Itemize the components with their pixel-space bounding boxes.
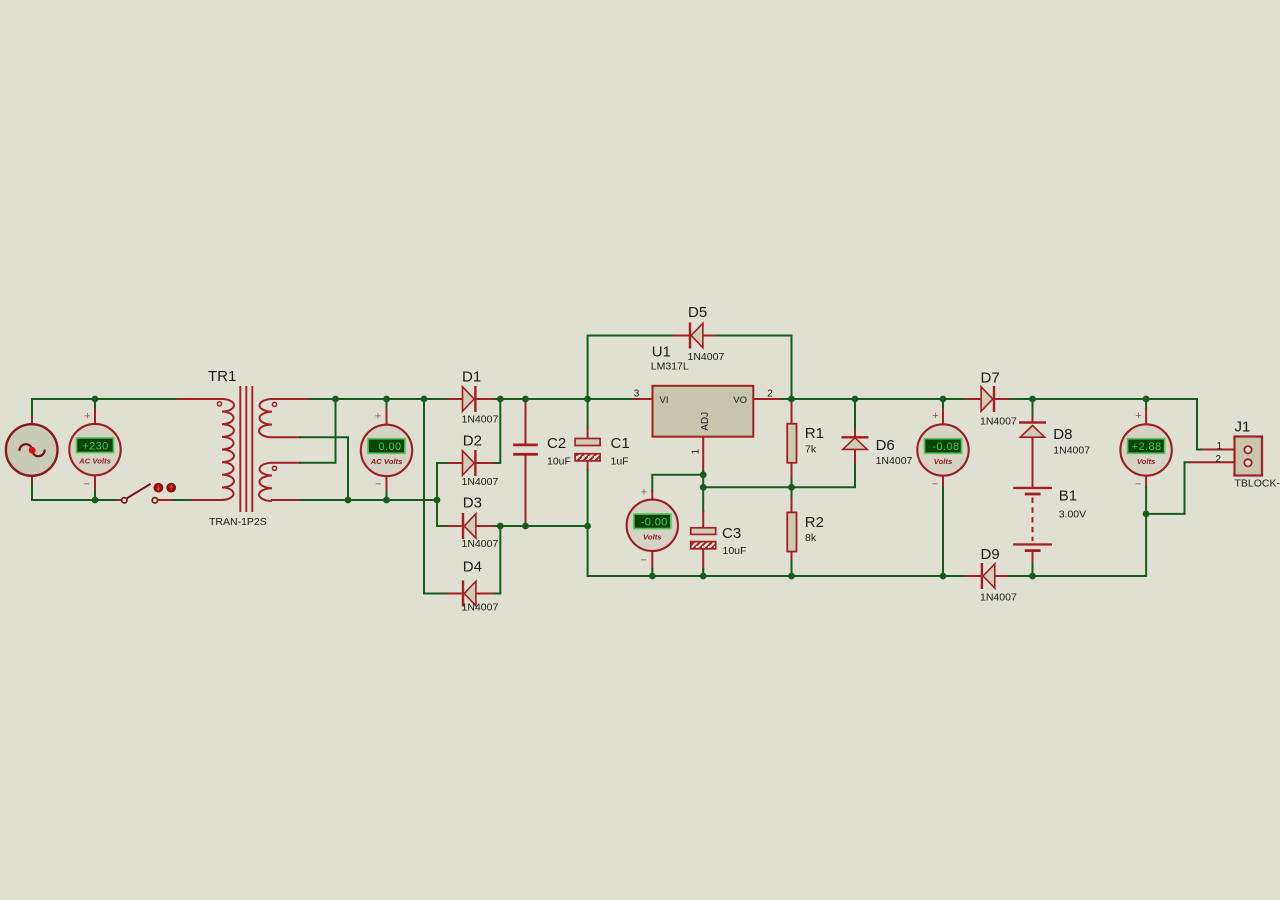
svg-text:1N4007: 1N4007: [876, 455, 913, 467]
wire: R2 pins: [791, 487, 793, 499]
svg-text:Volts: Volts: [1137, 457, 1156, 466]
wire: transformer secondary top lead red: [272, 398, 310, 400]
wire: D1 red leads: [448, 398, 495, 400]
svg-text:D4: D4: [463, 559, 482, 576]
wire: D4 red leads: [448, 593, 495, 595]
wire: secondary bottom rail: [300, 499, 437, 501]
wire: voltmeter5 plus stub: [1145, 399, 1147, 409]
wire: voltmeter1 minus stub: [94, 475, 96, 491]
junction mid rail at C2: [522, 523, 529, 530]
wire: voltmeter4 minus stub to ground rail: [942, 476, 944, 488]
wire: C2 red pins: [525, 401, 527, 524]
junction secondary bottom rail at voltmeter2: [383, 497, 390, 504]
junction voltmeter5 minus node: [1143, 511, 1150, 518]
svg-text:7k: 7k: [805, 444, 817, 456]
svg-text:1N4007: 1N4007: [688, 351, 725, 363]
wire: secondary top rail to D1: [310, 398, 448, 400]
diode D6: [842, 436, 869, 449]
svg-text:1N4007: 1N4007: [980, 592, 1017, 604]
junction secondary bottom rail x437: [434, 497, 441, 504]
wire: ground bottom rail: [588, 526, 966, 576]
diode D3: [462, 513, 476, 539]
capacitor C2: [513, 444, 538, 456]
wire: D2 cathode up to top rail: [495, 399, 501, 463]
voltmeter +2.88 Volts: [1120, 410, 1171, 491]
wire: voltmeter4 plus stub: [942, 399, 944, 409]
junction VO rail at R1/D5: [788, 396, 795, 403]
battery B1 3.00V: [1013, 487, 1052, 552]
transformer secondary winding 1: [259, 399, 272, 437]
wire: C3 bottom to ground rail: [702, 569, 704, 576]
capacitor C1 (electrolytic): [575, 439, 600, 461]
wire: voltmeter2 plus stub: [386, 399, 388, 409]
svg-text:TBLOCK-I2: TBLOCK-I2: [1235, 478, 1280, 490]
junction top rail x424: [421, 396, 428, 403]
wire: J1 pin2 loop: [1146, 462, 1190, 514]
wire: red pin to switch left contact: [119, 499, 122, 501]
transformer polarity dot secondary 1: [272, 402, 276, 406]
wire: ADJ to voltmeter3 plus: [652, 475, 703, 491]
wire: vertical x424 top rail to D4: [424, 399, 448, 594]
svg-text:-0.00: -0.00: [641, 516, 668, 528]
svg-text:D1: D1: [462, 368, 481, 385]
svg-text:D3: D3: [463, 495, 482, 512]
wire: voltmeter2 minus stub: [386, 476, 388, 492]
wire: mid rail D3 to C1 junction: [495, 525, 588, 527]
svg-text:+: +: [84, 410, 90, 422]
junction ground rail at voltmeter3: [649, 573, 656, 580]
wire: voltmeter5 minus stub: [1145, 476, 1147, 488]
transformer TR1 TRAN-1P2S: [217, 386, 276, 512]
svg-text:AC Volts: AC Volts: [370, 457, 403, 466]
svg-text:2: 2: [767, 389, 773, 400]
svg-text:+: +: [641, 487, 647, 499]
wire: D2 red leads: [448, 462, 495, 464]
wire: R1 pins: [791, 401, 793, 479]
voltmeter -0.00 Volts: [627, 487, 678, 567]
svg-text:VI: VI: [660, 395, 669, 406]
wire: bottom rail D9 to voltmeter5 corner: [1010, 514, 1146, 576]
svg-text:D7: D7: [981, 369, 1000, 386]
transformer polarity dot primary: [217, 402, 221, 406]
wire: switch right contact to transformer primary bottom: [158, 499, 173, 501]
junction ground rail at voltmeter4: [940, 573, 947, 580]
junction top rail at voltmeter2: [383, 396, 390, 403]
resistor R2: [787, 512, 796, 551]
wire: D7 red leads: [966, 398, 1010, 400]
svg-text:D5: D5: [688, 304, 707, 321]
svg-text:1N4007: 1N4007: [1053, 444, 1090, 456]
terminal block J1: [1235, 437, 1263, 476]
diode D2: [463, 450, 477, 476]
wire: C3 red pins: [702, 511, 704, 569]
wire: ADJ junction to R1/R2 node and D6: [703, 464, 855, 487]
svg-text:−: −: [375, 478, 381, 490]
svg-text:R1: R1: [805, 425, 824, 442]
junction top rail at C2: [522, 396, 529, 403]
wire: D5 bypass loop right side: [716, 336, 792, 400]
wire: D5 red leads: [675, 335, 717, 337]
svg-text:1N4007: 1N4007: [980, 416, 1017, 428]
wire: transformer primary top red lead: [178, 398, 222, 400]
svg-text:0.00: 0.00: [378, 441, 401, 453]
junction mid rail at D3: [497, 523, 504, 530]
wire: D6 cathode to VO rail: [854, 399, 856, 428]
svg-text:8k: 8k: [805, 532, 817, 544]
wire: battery bottom pin: [1032, 552, 1034, 563]
svg-text:D9: D9: [981, 546, 1000, 563]
wire: VO rail to D7: [781, 398, 966, 400]
svg-text:−: −: [932, 479, 938, 491]
wire: D6 anode red pin: [854, 450, 856, 464]
wire: U1 VI red pin: [634, 398, 653, 400]
wire: D7 cathode rail to J1 corner: [1010, 399, 1203, 450]
svg-text:TR1: TR1: [208, 368, 236, 385]
diode D8: [1019, 421, 1046, 437]
junction top rail at C1/D5: [584, 396, 591, 403]
wire: secondary winding2 bottom lead red: [272, 499, 300, 501]
svg-text:+230: +230: [82, 440, 108, 452]
wire: vertical x437 D2 anode to D3 cathode: [436, 463, 438, 526]
wire: D6 cathode red pin: [854, 428, 856, 436]
wire: bottom-left rail AC source to switch: [32, 483, 119, 500]
wire: to D3 cathode: [437, 525, 448, 527]
voltmeter -0.08 Volts: [917, 410, 968, 491]
svg-text:ADJ: ADJ: [700, 412, 711, 431]
junction top rail x335: [332, 396, 339, 403]
svg-text:Volts: Volts: [934, 457, 953, 466]
svg-text:C2: C2: [547, 435, 566, 452]
junction VO rail at D6: [852, 396, 859, 403]
transformer secondary winding 2: [259, 463, 272, 501]
junction top rail at D1 cathode: [497, 396, 504, 403]
svg-text:VO: VO: [733, 395, 747, 406]
regulator U1 LM317L: [653, 386, 754, 437]
svg-text:C3: C3: [722, 525, 741, 542]
wire: D3 red leads: [448, 525, 495, 527]
junction ADJ lower: [700, 484, 707, 491]
wire: secondary winding1 bottom lead red: [272, 436, 300, 438]
svg-text:1N4007: 1N4007: [462, 538, 499, 550]
resistor R1: [787, 424, 796, 463]
svg-text:R2: R2: [805, 514, 824, 531]
svg-text:1: 1: [691, 449, 702, 455]
wire: D8 top stub: [1032, 399, 1034, 416]
svg-text:LM317L: LM317L: [651, 361, 689, 373]
diode D9: [981, 563, 995, 589]
svg-text:1N4007: 1N4007: [462, 602, 499, 614]
svg-text:+: +: [375, 410, 381, 422]
wire: U1 ADJ red pin: [702, 437, 704, 471]
svg-text:−: −: [1135, 479, 1141, 491]
capacitor C3 (electrolytic): [691, 528, 716, 549]
svg-text:+2.88: +2.88: [1132, 441, 1162, 453]
junction mid rail at C1: [584, 523, 591, 530]
junction ground rail at B1: [1029, 573, 1036, 580]
wire: top-left loop AC source top to transformer primary: [32, 399, 178, 417]
svg-text:TRAN-1P2S: TRAN-1P2S: [209, 516, 267, 528]
svg-text:10uF: 10uF: [547, 456, 571, 468]
svg-text:−: −: [83, 478, 89, 490]
junction ground rail at C3: [700, 573, 707, 580]
wire: winding2 top to x335.5 up to top rail: [300, 399, 336, 463]
diode D5: [689, 323, 703, 349]
wire: to D2 anode: [437, 462, 448, 464]
transformer core: [240, 386, 252, 512]
svg-text:B1: B1: [1059, 488, 1077, 505]
svg-text:+: +: [1135, 410, 1141, 422]
junction secondary bottom rail x348: [345, 497, 352, 504]
wire: D5 bypass loop left side: [588, 336, 675, 400]
wire: voltmeter1 plus stub: [94, 399, 96, 409]
svg-text:C1: C1: [611, 435, 630, 452]
wire: voltmeter3 minus stub: [651, 551, 653, 569]
wire: U1 VO red pin: [753, 398, 781, 400]
wire: C1 pins: [587, 399, 589, 429]
AC voltage source: [6, 424, 58, 476]
svg-text:AC Volts: AC Volts: [78, 456, 111, 465]
wire: red pin stub AC source top: [31, 417, 33, 425]
junction top rail at voltmeter1: [92, 396, 99, 403]
svg-text:D6: D6: [876, 437, 895, 454]
svg-text:1N4007: 1N4007: [462, 414, 499, 426]
svg-text:2: 2: [1216, 454, 1222, 465]
wire: J1 pin1 red lead: [1203, 449, 1244, 451]
svg-text:Volts: Volts: [643, 532, 662, 541]
svg-text:1uF: 1uF: [611, 456, 629, 468]
junction rail at voltmeter5: [1143, 396, 1150, 403]
diode D7: [981, 386, 995, 412]
wire: D9 red leads: [966, 575, 1010, 577]
voltmeter 0.00 AC Volts: [361, 410, 412, 490]
svg-text:−: −: [640, 555, 646, 567]
svg-text:1: 1: [1217, 441, 1223, 452]
switch SW1: [122, 483, 177, 503]
svg-text:1N4007: 1N4007: [462, 476, 499, 488]
svg-text:D8: D8: [1053, 426, 1072, 443]
junction VO rail at voltmeter4: [940, 396, 947, 403]
svg-text:10uF: 10uF: [723, 545, 747, 557]
voltmeter +230 AC Volts: [69, 410, 120, 490]
junction ADJ upper: [700, 471, 707, 478]
diode D4: [462, 581, 476, 607]
diode D1: [463, 386, 477, 412]
wire: red pin stub AC source bottom: [31, 476, 33, 484]
wire: top rail D1 to U1 VI: [495, 398, 634, 400]
wire: D4 anode up to mid rail: [495, 526, 501, 594]
svg-text:D2: D2: [463, 433, 482, 450]
svg-text:J1: J1: [1235, 419, 1251, 436]
svg-text:-0.08: -0.08: [932, 441, 959, 453]
svg-text:3: 3: [634, 389, 640, 400]
transformer polarity dot secondary 2: [272, 466, 276, 470]
junction R1/R2 node: [788, 484, 795, 491]
wire: ADJ net vertical: [702, 471, 704, 512]
junction rail at D8: [1029, 396, 1036, 403]
svg-text:U1: U1: [652, 344, 671, 361]
junction left bottom rail at voltmeter1: [92, 497, 99, 504]
svg-text:3.00V: 3.00V: [1059, 509, 1086, 521]
wire: D8 anode to battery B1: [1032, 438, 1034, 487]
junction ground rail at R2: [788, 573, 795, 580]
wire: winding1 bottom to x348 down to bottom rail: [300, 437, 348, 500]
svg-text:+: +: [932, 410, 938, 422]
wire: secondary winding2 top lead red: [272, 462, 300, 464]
transformer primary winding: [222, 399, 234, 500]
wire: J1 pin2 red lead: [1190, 461, 1244, 463]
